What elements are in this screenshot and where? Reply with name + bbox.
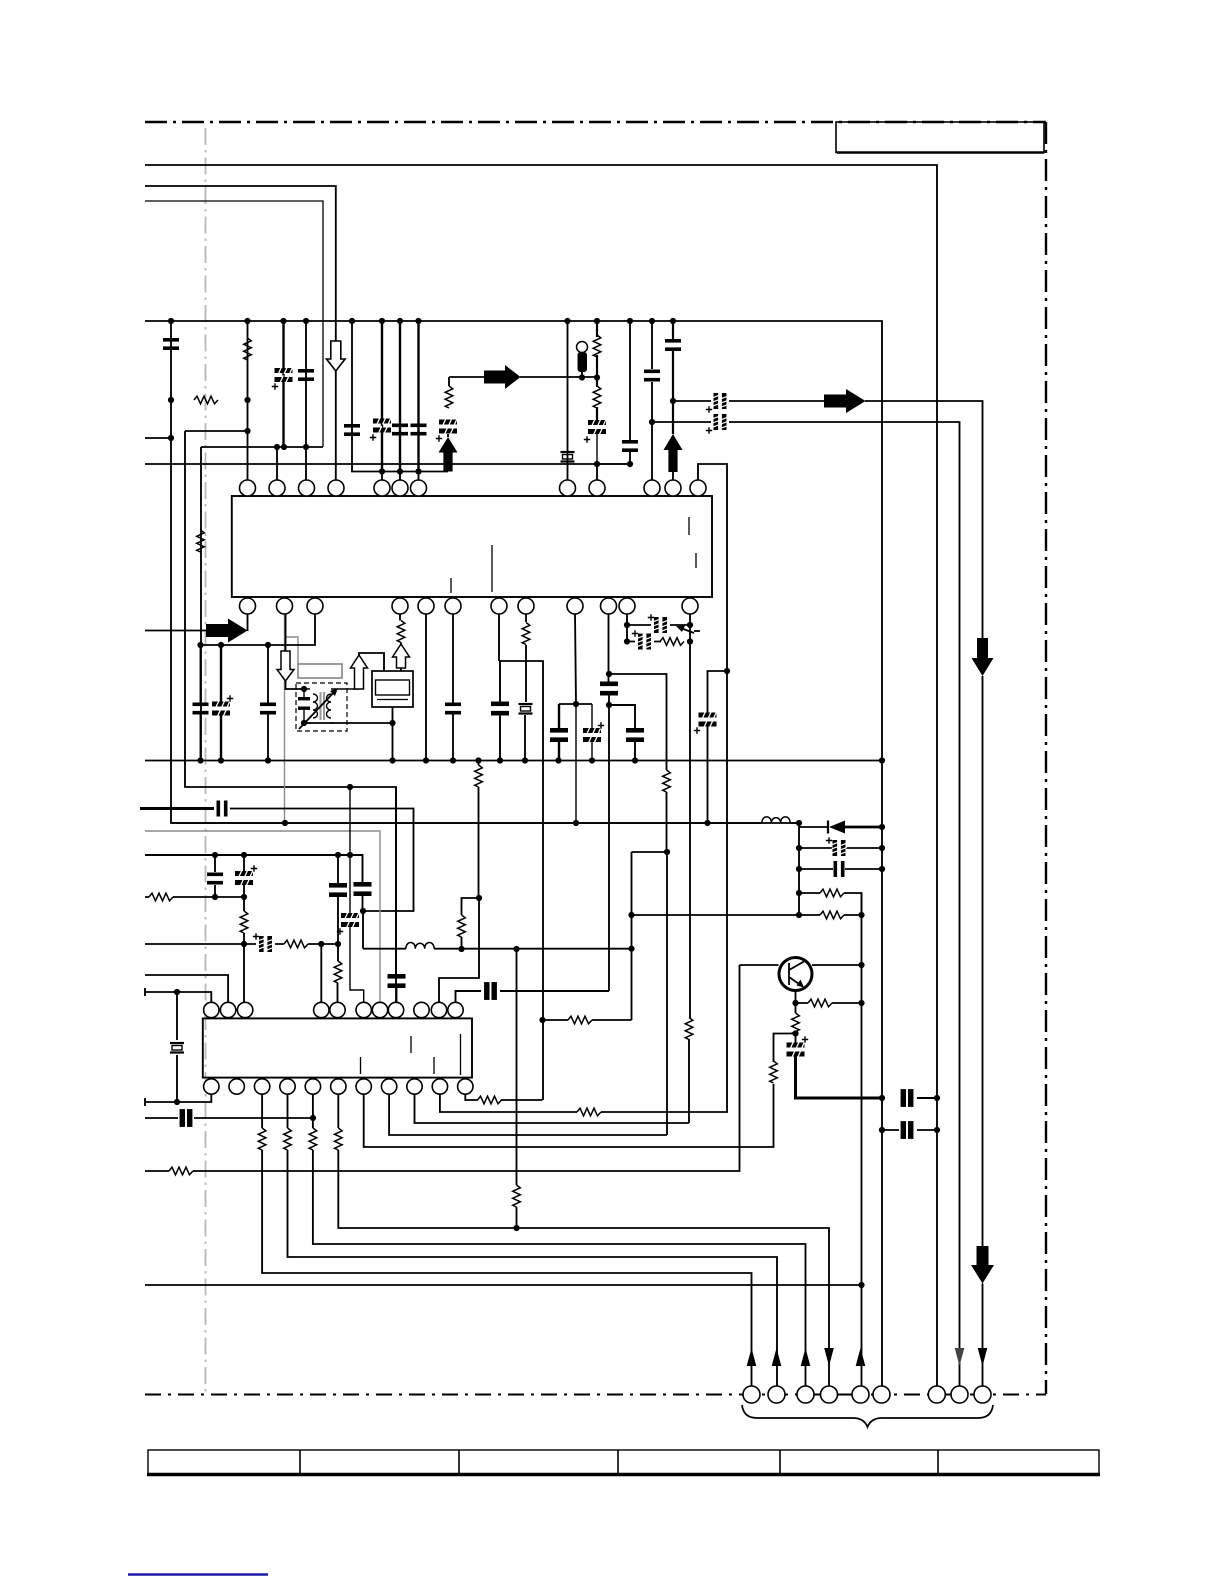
junction node x171 y400	[168, 397, 174, 403]
junction node x609 y705	[606, 702, 612, 708]
junction node x363 y911	[360, 908, 366, 914]
wire x221 elec chain	[220, 645, 222, 761]
wire pin426 lead	[425, 614, 427, 761]
resistor R x461	[458, 915, 466, 937]
wire resistor x478 below rail	[439, 761, 479, 1003]
resistor R x526	[522, 623, 530, 645]
bracket x352 to pin bracket	[352, 321, 448, 472]
junction node x795.5 y1003	[792, 1000, 798, 1006]
wire x338 cap chain	[337, 855, 340, 1002]
pin U4 top x337.5	[330, 1002, 345, 1017]
cap trio bold leads	[382, 321, 419, 472]
junction node x215 y855	[212, 852, 218, 858]
arrow up pin x805.5	[801, 1348, 811, 1366]
wire x244 chain	[243, 855, 245, 1002]
pin U1 bottom x315	[307, 598, 323, 614]
title box top right	[836, 122, 1044, 153]
pin U1 top x567.5	[560, 480, 576, 496]
electrolytic C x597	[588, 419, 606, 436]
wire bus A y165	[145, 165, 937, 1386]
capacitor C x609	[600, 682, 618, 696]
resistor R y1100	[478, 1096, 502, 1104]
capacitor C x171	[163, 338, 179, 350]
diode D1 row y827	[799, 826, 828, 828]
pin U4 top x321.3	[314, 1002, 329, 1017]
resistor R y641	[660, 638, 684, 646]
junction node x799 y823	[796, 820, 802, 826]
pin U4 bottom x389.1	[381, 1079, 396, 1094]
arrow up hollow J	[351, 655, 368, 689]
junction node x200.5 y645	[197, 642, 203, 648]
junction node x247.5 y431	[244, 428, 250, 434]
cap row y869	[799, 868, 882, 870]
capacitor C x268	[260, 703, 276, 715]
capacitor C x200	[193, 703, 209, 715]
pin U1 bottom x690	[682, 598, 698, 614]
junction node x707.5 y823	[704, 820, 710, 826]
junction node x630 y464	[627, 461, 633, 467]
junction node x525 y760.5	[522, 757, 528, 763]
lamp DS1	[577, 342, 588, 353]
capacitor C x396	[388, 974, 406, 988]
node top pin 277 lead	[276, 447, 278, 480]
arrow down hollow I	[277, 651, 294, 681]
electrolytic C y944	[258, 936, 273, 952]
lamp lead	[581, 372, 583, 378]
electrolytic C y641	[637, 634, 652, 650]
wire pin575 lead	[575, 614, 576, 704]
junction node x304 y723	[301, 720, 307, 726]
resistor R x200	[197, 530, 205, 552]
arrow down pin x959.5	[955, 1348, 965, 1366]
resistor R x337	[334, 961, 342, 983]
wire y661 branch to x543	[500, 661, 543, 1100]
capacitor C x400	[392, 424, 408, 436]
pin U4 top x211.3	[204, 1002, 219, 1017]
electrolytic C y848	[832, 840, 847, 856]
pin U4 bottom x439.9	[432, 1079, 447, 1094]
wire x177 crystal chain	[176, 992, 178, 1102]
wire y975 line	[145, 975, 228, 1002]
capacitor C x453	[445, 703, 461, 715]
wire left col x185	[185, 431, 396, 1002]
wire y831 gray line	[145, 831, 380, 1002]
wire cap y1098 right	[917, 1097, 937, 1099]
pin U1 top x698	[690, 480, 706, 496]
resistor R y893	[820, 889, 844, 897]
frame top dash-dot border	[145, 121, 1046, 123]
crystal X1 x567	[561, 452, 575, 462]
pin U4 top x363.7	[356, 1002, 371, 1017]
wire x799 node column	[798, 823, 800, 915]
wire x673 chain	[672, 321, 674, 434]
table column divider x300	[299, 1450, 301, 1474]
electrolytic C y625	[653, 617, 668, 633]
wire pin526 resistor crystal chain	[525, 614, 526, 761]
electrolytic C x283	[275, 367, 293, 384]
wire left col x201	[200, 447, 202, 761]
pin U1 top x597	[589, 480, 605, 496]
cap C y991 bold	[485, 983, 496, 999]
wire pin247 to arrowC	[247, 614, 249, 631]
capacitor C x215	[207, 873, 223, 885]
resistor R y944	[284, 940, 308, 948]
wire y808 cap line right	[230, 809, 414, 912]
wire x516 chain	[516, 949, 518, 1228]
wire y431 link	[185, 430, 248, 432]
junction node x277 y447	[274, 444, 280, 450]
junction node x500 y760.5	[497, 757, 503, 763]
pin U1 bottom x499	[491, 598, 507, 614]
wire x882 column lower	[881, 761, 883, 1387]
wire cap x362 lower lead	[362, 895, 365, 949]
transformer T1 trim arrow	[299, 690, 336, 729]
junction node x542.5 y1020	[539, 1017, 545, 1023]
junction node x400 y321	[397, 318, 403, 324]
wire x576 below rail	[575, 704, 577, 823]
pin597 stub	[596, 464, 598, 480]
table column divider x618	[617, 1450, 619, 1474]
shield box gray	[298, 664, 342, 678]
pin U1 bottom x453	[445, 598, 461, 614]
wire left col x171	[171, 321, 799, 823]
pin U4 top x380	[372, 1002, 387, 1017]
trimmer arrow cluster	[678, 627, 700, 633]
wire x597 chain	[596, 321, 598, 421]
pin U1 top x382	[374, 480, 390, 496]
junction node x350 y855	[347, 852, 353, 858]
table column divider x459	[458, 1450, 460, 1474]
wire arrowC feed	[145, 630, 206, 632]
wire x773 resistor top	[774, 1034, 796, 1063]
wire arrowK to block	[400, 668, 402, 671]
wire rail y321	[145, 321, 882, 761]
wire x727 lower	[726, 671, 728, 1112]
junction node x631.5 y915	[628, 912, 634, 918]
junction node x861.5 y1003	[858, 1000, 864, 1006]
wire bracket y898 x461	[462, 898, 480, 949]
wire pin690 chain	[689, 614, 690, 1123]
wire pin439 route y1112	[440, 1094, 728, 1112]
resistor R x667	[663, 770, 671, 792]
resistor R x478	[475, 765, 483, 787]
wire y1020 line	[543, 1019, 632, 1021]
arrow down pin x829	[824, 1348, 834, 1366]
junction node x350 y787	[347, 784, 353, 790]
junction node x627 y641.5	[624, 638, 630, 644]
wire cap x559 chain	[558, 704, 560, 761]
junction node x247.5 y400	[244, 397, 250, 403]
resistor R x247	[244, 338, 252, 360]
junction node x321.3 y944	[318, 941, 324, 947]
wire y1171 resistor line	[145, 965, 740, 1171]
wire gray link to shield box	[285, 637, 299, 664]
transistor Q1 base wire	[740, 964, 779, 966]
junction node x284 y447	[281, 444, 287, 450]
junction node x727 y671	[724, 668, 730, 674]
junction node x338 y944	[335, 941, 341, 947]
electrolytic C x244	[235, 870, 253, 887]
pin connector x936.8	[928, 1386, 945, 1403]
electrolytic C x592	[583, 727, 601, 744]
junction node x882 y1130	[879, 1127, 885, 1133]
arrow up pin x776.5	[772, 1348, 782, 1366]
wire rail y855	[145, 855, 363, 883]
pin U1 bottom x526	[518, 598, 534, 614]
junction node x882 y869	[879, 866, 885, 872]
capacitor C y869	[834, 861, 845, 877]
resistor R x689	[685, 1018, 693, 1040]
junction node x283.5 y321	[280, 318, 286, 324]
wire y674 branch to x666	[609, 674, 667, 1135]
wire x597 lower gray lead	[597, 433, 630, 464]
junction node x418.5 y471.5	[415, 468, 421, 474]
junction node x795.5 y1033.5	[792, 1030, 798, 1036]
junction node x597 y377.5	[594, 374, 600, 380]
wire y897 line	[145, 896, 244, 898]
junction node x567.5 y321	[564, 318, 570, 324]
arrow up solid D	[439, 437, 458, 472]
wire y1285 long line	[145, 1284, 862, 1286]
frame bottom dash-dot border	[145, 1394, 1046, 1396]
pin U1 bottom x575	[567, 598, 583, 614]
wire block bottom lead	[392, 707, 394, 723]
pin U4 top x439	[431, 1002, 446, 1017]
transistor Q1	[779, 958, 812, 991]
capacitor C x559	[550, 728, 568, 742]
wire y949 coil line	[363, 948, 632, 950]
pin U4 bottom x287.5	[280, 1079, 295, 1094]
junction node x630 y321	[627, 318, 633, 324]
pin connector x860.5	[852, 1386, 869, 1403]
pin382 stub	[382, 472, 419, 481]
wire pin414 route y1123	[415, 1094, 690, 1123]
resistor row y893	[799, 893, 862, 915]
capacitor C x635	[626, 728, 644, 742]
wire x630 cap chain	[629, 321, 631, 464]
pin connector x829	[821, 1386, 838, 1403]
wire y991 cap line	[456, 991, 610, 1002]
capacitor C x352	[344, 424, 360, 436]
IC U4 body	[203, 1018, 472, 1077]
wire x567 crystal chain	[567, 321, 569, 480]
junction node x558.5 y760.5	[555, 757, 561, 763]
junction node x247.5 y321	[244, 318, 250, 324]
resistor R x773	[770, 1061, 778, 1083]
wire pin698 route	[698, 464, 727, 671]
pin U4 bottom x262.1	[254, 1079, 269, 1094]
pin U1 top x652	[644, 480, 660, 496]
junction node x306 y321	[303, 318, 309, 324]
resistor R x795	[792, 1013, 800, 1035]
wire pin262 resistor drop	[262, 1094, 751, 1386]
arrow down hollow H	[327, 341, 346, 371]
wire pin313 resistor drop	[313, 1094, 806, 1386]
junction node x690 y641.5	[687, 638, 693, 644]
arrow down pin x982.5	[978, 1348, 988, 1366]
electrolytic C y401	[713, 393, 728, 409]
pin connector x751.5	[743, 1386, 760, 1403]
pin connector x982.5	[974, 1386, 991, 1403]
electrolytic C y422	[713, 414, 728, 430]
junction node x882 y848	[879, 845, 885, 851]
junction node x304 y689	[301, 686, 307, 692]
resistor R x597 lower	[593, 386, 601, 408]
arrow right solid A	[484, 365, 521, 389]
junction node x882 y760.5	[879, 757, 885, 763]
junction node x627 y625	[624, 622, 630, 628]
junction node x882 y827	[879, 824, 885, 830]
pin U4 bottom x236.7	[229, 1079, 244, 1094]
node x283 elec lead	[282, 321, 284, 447]
IC U1 inner marks	[451, 517, 696, 593]
brace under connector	[742, 1405, 993, 1427]
junction node x799 y915	[796, 912, 802, 918]
node C1a lead	[305, 321, 307, 480]
wire y1102 line	[145, 1095, 211, 1106]
pin U4 bottom x211.3	[204, 1079, 219, 1094]
frame right dash-dot border	[1045, 122, 1047, 1394]
wire pin363 route y1147	[364, 1084, 774, 1147]
junction node x453 y760.5	[450, 757, 456, 763]
wire pin608 chain	[608, 614, 611, 991]
wire y645 bus	[201, 614, 316, 645]
capacitor C x500	[491, 702, 509, 716]
pin U1 top x418.5	[411, 480, 427, 496]
junction node x576 y704	[573, 701, 579, 707]
arrow down solid F	[972, 638, 994, 676]
coil L1 on y823	[762, 817, 790, 823]
junction node x382 y471.5	[379, 468, 385, 474]
blue footer line	[128, 1573, 268, 1576]
arrow up pin x751.5	[747, 1348, 757, 1366]
junction node x582 y377.5	[579, 374, 585, 380]
resistor R base y1003	[796, 1002, 862, 1004]
wire y852 link	[632, 851, 668, 853]
pin U1 bottom x627	[619, 598, 635, 614]
pin U4 top x228.1	[220, 1002, 235, 1017]
wire pin499 chain	[499, 614, 500, 761]
transformer T1 core	[321, 692, 325, 720]
junction node x244 y855	[241, 852, 247, 858]
junction node x313 y1118	[310, 1115, 316, 1121]
junction node x597 y321	[594, 318, 600, 324]
coil L2 on y949	[406, 943, 434, 949]
resistor R x516	[513, 1185, 521, 1207]
pin U4 top x245.1	[237, 1002, 252, 1017]
wire y992 line	[145, 988, 211, 1002]
pin U4 bottom x465.3	[458, 1079, 473, 1094]
wire y1118 cap line	[145, 1117, 313, 1119]
junction node x171 y321	[168, 318, 174, 324]
pin U1 top x336	[328, 480, 344, 496]
wire x861 column	[861, 893, 863, 1386]
electrolytic C x350	[341, 912, 359, 929]
wire y377 arrow line	[449, 376, 597, 378]
wire pin627 elec pair	[627, 614, 690, 642]
arrow up pin x860.5	[856, 1348, 866, 1366]
junction node x882 y1098	[879, 1095, 885, 1101]
wire x652 chain	[651, 321, 653, 480]
resistor R y897	[149, 893, 173, 901]
wire x396 chain	[395, 787, 398, 1002]
capacitor C y808	[217, 801, 228, 817]
junction node x861.5 y1285	[858, 1282, 864, 1288]
junction node x937 y1098	[934, 1095, 940, 1101]
junction node x392.5 y723	[389, 720, 395, 726]
junction node x461.5 y949	[458, 946, 464, 952]
junction node x221 y645	[218, 642, 224, 648]
junction node x221 y760.5	[218, 757, 224, 763]
junction node x268 y760.5	[265, 757, 271, 763]
pin U1 top x247.5	[240, 480, 256, 496]
electrolytic C x448	[439, 418, 457, 435]
wire y944 line	[145, 943, 338, 945]
pin U4 top x396	[388, 1002, 403, 1017]
cap C y1118	[181, 1110, 192, 1126]
wire x795 resistor elec chain	[795, 1003, 797, 1043]
IC U4 inner marks	[361, 1034, 461, 1075]
electrolytic C x221	[212, 700, 230, 717]
arrow right solid C	[206, 619, 248, 643]
junction node x937 y1130	[934, 1127, 940, 1133]
junction node x667 y852	[664, 849, 670, 855]
pin U4 bottom x312.9	[305, 1079, 320, 1094]
junction node x306 y447	[303, 444, 309, 450]
junction node x592 y760.5	[589, 757, 595, 763]
junction node x479 y898	[476, 895, 482, 901]
junction node x200.5 y760.5	[197, 757, 203, 763]
arrow right solid B	[824, 389, 866, 413]
wire pin453 cap chain	[452, 614, 454, 761]
wire x982 lower	[982, 676, 984, 1386]
junction node x285 y823	[282, 820, 288, 826]
wire x321 pin lead	[320, 944, 322, 1002]
pin U1 bottom x284.5	[277, 598, 293, 614]
wire y422 elec line	[652, 422, 960, 1386]
converter block U2	[372, 671, 413, 707]
junction node x652 y321	[649, 318, 655, 324]
arrow D chain x448	[448, 377, 449, 437]
wire stub y438	[145, 437, 171, 439]
wire pin389 route y1135	[389, 1094, 667, 1135]
pin connector x776.5	[768, 1386, 785, 1403]
junction node x177 y1102	[174, 1099, 180, 1105]
wire pin284 gray lead	[284, 614, 286, 823]
junction node x418.5 y321	[415, 318, 421, 324]
junction node x516.5 y949	[513, 946, 519, 952]
junction node x400 y471.5	[397, 468, 403, 474]
resistor R x401	[397, 621, 405, 643]
wire y808 cap line bold left	[140, 807, 214, 810]
electrolytic C x707	[699, 711, 717, 728]
table frame bottom	[148, 1450, 1099, 1474]
junction node x690 y625	[687, 622, 693, 628]
wire y915 line	[632, 914, 862, 916]
pin673 stub	[672, 472, 674, 480]
resistor R y400	[194, 396, 218, 404]
junction node x177 y992	[174, 989, 180, 995]
wire x795 bold elbow to cap	[796, 1056, 883, 1098]
transformer T1 winding stubs	[304, 689, 359, 723]
wire x200 chain	[200, 645, 202, 761]
resistor R x244	[240, 911, 248, 933]
pin U4 bottom x338.3	[331, 1079, 346, 1094]
table column divider x938	[937, 1450, 939, 1474]
wire y401 elec line	[673, 401, 983, 638]
capacitor C x338	[329, 883, 347, 897]
electrolytic C x382	[373, 417, 391, 434]
